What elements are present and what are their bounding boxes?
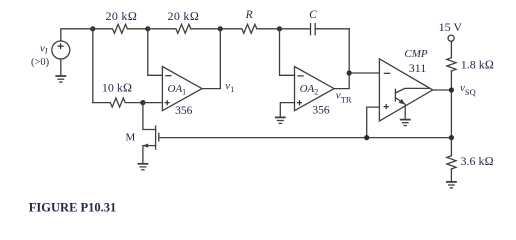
node vSQ junction	[449, 87, 454, 92]
node C junction	[277, 26, 282, 31]
svg-text:20 kΩ: 20 kΩ	[168, 9, 200, 23]
ground source	[56, 76, 65, 82]
svg-text:OA1: OA1	[168, 83, 187, 97]
wire OA2 output	[334, 29, 349, 89]
op-amp OA2	[295, 67, 335, 117]
wire 3.6k to ground	[450, 169, 452, 182]
svg-text:OA2: OA2	[300, 83, 319, 97]
ground OA2	[276, 117, 285, 123]
svg-text:FIGURE P10.31: FIGURE P10.31	[29, 201, 117, 215]
wire to OA1 plus	[143, 102, 163, 104]
wire gate	[160, 137, 452, 139]
wire CMP output	[433, 89, 452, 91]
ground CMP	[401, 120, 410, 126]
svg-text:M: M	[126, 132, 136, 144]
resistor R4 1.8k	[447, 57, 494, 71]
wire source bottom	[60, 59, 62, 76]
wire to CMP minus	[349, 72, 379, 74]
wire OA1 minus	[148, 29, 163, 76]
svg-text:356: 356	[175, 105, 193, 117]
node D junction	[140, 100, 145, 105]
wire source top	[61, 29, 93, 41]
transistor M (NMOS)	[142, 103, 158, 164]
resistor R	[220, 9, 279, 33]
node A junction	[90, 26, 95, 31]
wire to 3.6k	[450, 138, 452, 156]
capacitor C	[280, 9, 350, 35]
svg-text:vSQ: vSQ	[460, 82, 476, 97]
wire OA1 output	[202, 29, 220, 89]
svg-text:10 kΩ: 10 kΩ	[102, 81, 132, 95]
svg-text:vI: vI	[40, 43, 48, 56]
node v1 top junction	[218, 26, 223, 31]
svg-text:CMP: CMP	[404, 48, 428, 60]
transistor Q1 inside CMP	[395, 88, 428, 119]
svg-text:20 kΩ: 20 kΩ	[106, 9, 138, 23]
supply 15V	[439, 20, 463, 58]
wire rail vSQ	[450, 71, 452, 138]
svg-text:v1: v1	[225, 80, 234, 94]
svg-text:vTR: vTR	[336, 90, 352, 105]
comparator CMP 311	[379, 48, 432, 121]
svg-text:(>0): (>0)	[31, 57, 50, 68]
svg-text:15 V: 15 V	[439, 20, 463, 34]
ground R5	[447, 182, 456, 188]
svg-text:3.6 kΩ: 3.6 kΩ	[461, 154, 494, 168]
node F junction	[449, 135, 454, 140]
node E junction	[364, 135, 369, 140]
wire OA2 plus to ground	[280, 103, 294, 118]
node B junction	[145, 26, 150, 31]
svg-text:356: 356	[312, 105, 330, 117]
wire left vertical	[92, 29, 94, 103]
resistor R2 20k	[148, 9, 221, 34]
ground M	[138, 164, 147, 170]
svg-text:R: R	[245, 9, 253, 21]
resistor R5 3.6k	[447, 154, 494, 169]
resistor R3 10k	[93, 81, 143, 108]
svg-text:C: C	[309, 9, 317, 21]
wire CMP plus	[367, 107, 380, 138]
resistor R1 20k	[93, 9, 148, 34]
svg-text:311: 311	[409, 61, 427, 75]
node vTR junction	[347, 70, 352, 75]
op-amp OA1	[162, 67, 202, 117]
svg-text:1.8 kΩ: 1.8 kΩ	[461, 57, 494, 71]
wire OA2 minus	[280, 29, 295, 76]
voltage source vI	[52, 41, 70, 59]
